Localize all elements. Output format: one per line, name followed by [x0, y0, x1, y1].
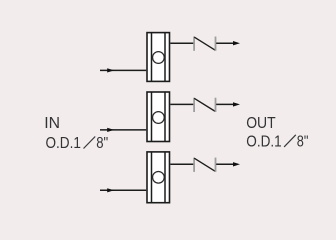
pump unit U1 (row 1 body) — [147, 33, 170, 82]
flow arrow: outlet row 2 — [233, 102, 240, 106]
pump unit U3 (row 3 body) — [147, 152, 170, 203]
flow arrow: inlet row 2 — [107, 128, 114, 132]
wire: unit U3 to valve V3 — [170, 163, 194, 165]
wire: valve V3 outlet — [216, 163, 235, 165]
label: O.D.1/8" (outlet) — [246, 134, 308, 151]
svg-text:O.D.1: O.D.1 — [46, 135, 82, 152]
label: O.D.1/8" (inlet) — [46, 135, 109, 152]
svg-text:O.D.1: O.D.1 — [246, 134, 282, 151]
wire: valve V2 outlet — [216, 103, 235, 105]
wire: unit U1 to valve V1 — [170, 42, 194, 44]
svg-text:IN: IN — [44, 115, 60, 132]
wire: unit U2 to valve V2 — [170, 103, 194, 105]
svg-text:OUT: OUT — [246, 115, 276, 132]
pump unit U2 (row 2 body) — [147, 92, 170, 142]
flow arrow: outlet row 1 — [233, 41, 240, 45]
flow arrow: inlet row 3 — [107, 188, 114, 192]
wire: valve V1 outlet — [216, 42, 235, 44]
wire: inlet line row 3 — [100, 189, 146, 191]
svg-text:8": 8" — [96, 135, 108, 152]
wire: inlet line row 2 — [100, 129, 146, 131]
valve V1 (restrictor, row 1) — [194, 37, 215, 51]
flow arrow: outlet row 3 — [233, 162, 240, 166]
svg-text:8": 8" — [297, 134, 309, 151]
wire: inlet line row 1 — [100, 69, 146, 71]
valve V3 (restrictor, row 3) — [194, 158, 215, 172]
valve V2 (restrictor, row 2) — [194, 98, 215, 112]
flow arrow: inlet row 1 — [107, 68, 114, 72]
